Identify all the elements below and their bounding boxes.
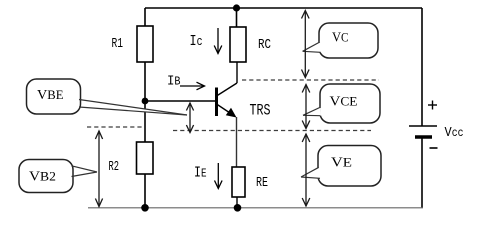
dashed base level line left (87, 126, 142, 128)
wire top rail (145, 7, 422, 9)
callout VCE (303, 84, 380, 123)
svg-text:VBE: VBE (37, 88, 64, 103)
wire base (145, 100, 216, 102)
measure arrow VCE (302, 85, 310, 129)
svg-text:RE: RE (256, 175, 268, 191)
battery VCC (409, 126, 437, 137)
resistor R1 (137, 26, 153, 62)
junction dot RE-ground (234, 204, 242, 212)
dashed collector level line (242, 79, 379, 81)
callout VBE (27, 79, 188, 115)
wire emitter lead (236, 117, 238, 167)
wire node B to R2 (144, 101, 146, 142)
resistor RC (230, 27, 246, 62)
wire bottom rail (88, 207, 423, 209)
svg-text:TRS: TRS (250, 102, 271, 120)
svg-text:IE: IE (194, 165, 207, 182)
battery minus label (430, 147, 438, 149)
current arrow Ic (214, 28, 222, 54)
wire R1 top lead (144, 8, 146, 26)
svg-text:VC: VC (332, 31, 349, 46)
callout VE (301, 146, 381, 187)
svg-text:Ic: Ic (190, 33, 203, 50)
node top junction dot (233, 4, 240, 11)
transistor TRS (217, 83, 238, 118)
node B junction dot (142, 98, 149, 105)
wire RC bottom lead to collector (236, 62, 238, 83)
measure arrow VBE (186, 103, 193, 133)
callout VB2 (19, 160, 97, 193)
svg-text:R2: R2 (109, 159, 120, 175)
resistor RE (232, 167, 245, 197)
wire R2 bottom lead (144, 174, 146, 208)
wire right rail lower (421, 137, 423, 208)
svg-text:R1: R1 (112, 36, 124, 52)
wire RE bottom lead (236, 197, 238, 208)
junction dot R2-ground (141, 204, 149, 212)
callout VC (303, 23, 378, 58)
battery plus label (428, 101, 437, 110)
svg-text:Vcc: Vcc (445, 125, 464, 141)
current arrow IB (180, 82, 205, 90)
svg-text:VB2: VB2 (29, 170, 56, 185)
current arrow IE (215, 163, 223, 189)
resistor R2 (137, 142, 154, 174)
wire R1 bottom lead to node B (144, 62, 146, 101)
measure arrow VE (302, 134, 310, 206)
measure arrow VC (302, 11, 310, 78)
svg-text:IB: IB (167, 74, 181, 90)
measure arrow VB2 (95, 131, 102, 207)
svg-text:RC: RC (258, 37, 271, 53)
svg-text:VE: VE (331, 155, 352, 171)
wire right rail upper (421, 8, 423, 126)
wire RC top lead (236, 8, 238, 27)
dashed emitter level line (173, 130, 371, 132)
svg-text:VCE: VCE (330, 95, 358, 110)
